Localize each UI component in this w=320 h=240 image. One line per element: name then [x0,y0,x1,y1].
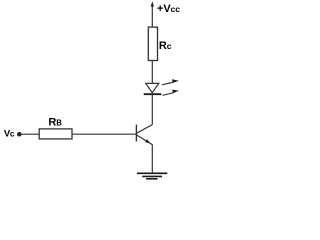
node Vc dot [17,132,22,137]
svg-text:c: c [10,128,15,138]
ground [137,173,167,179]
label Rc [159,40,172,52]
wire Rc to LED [151,61,153,84]
wire emitter to ground [151,144,153,173]
wire LED to collector [151,94,153,125]
label RB [48,117,62,129]
resistor Rc [148,27,157,60]
svg-text:B: B [56,119,62,128]
svg-text:c: c [167,41,172,51]
svg-text:+V: +V [157,3,171,15]
svg-text:R: R [48,117,56,129]
resistor RB [39,129,72,139]
power rail +Vcc arrow [151,1,154,27]
wire Vc to RB [19,133,39,135]
LED D1 [144,79,179,95]
svg-text:R: R [159,40,167,52]
label +Vcc [157,3,180,15]
svg-text:cc: cc [171,4,181,14]
label Vc [4,128,15,139]
transistor Q1 [136,125,152,145]
wire RB to base [72,133,136,135]
